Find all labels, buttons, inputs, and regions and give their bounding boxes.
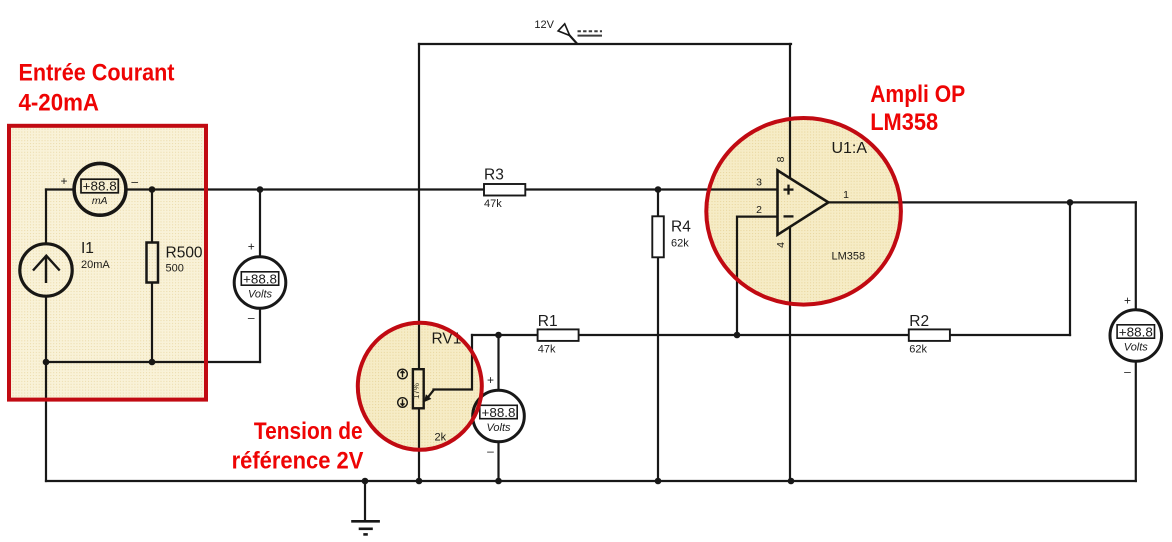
resistor R500 [147, 243, 203, 283]
junction V2 bottom on ground rail [495, 478, 502, 485]
wire voltmeter V1 top [259, 190, 261, 257]
voltmeter V3 (output) [1110, 293, 1162, 378]
RV1 up-adjust symbol [398, 369, 408, 379]
current source I1 [20, 240, 111, 296]
wire pin2 to R1 net [737, 217, 778, 335]
svg-text:Ampli OP: Ampli OP [870, 81, 965, 108]
junction I1 bottom on box rail [43, 359, 50, 366]
svg-text:Volts: Volts [486, 422, 511, 434]
ammeter [60, 163, 138, 215]
junction R4 top on pin3 net [655, 186, 662, 193]
svg-text:R1: R1 [538, 313, 558, 330]
junction ground tap on ground rail [362, 478, 369, 485]
svg-text:–: – [1124, 365, 1131, 379]
wire pin8 vertical [789, 44, 791, 180]
svg-text:4-20mA: 4-20mA [19, 90, 100, 117]
svg-text:+88.8: +88.8 [1119, 325, 1153, 340]
op-amp U1:A triangle [756, 140, 867, 263]
highlight border: op-amp circle [706, 118, 901, 305]
wire pin4 vertical [789, 225, 791, 481]
svg-text:47k: 47k [538, 343, 556, 355]
wire voltmeter V1 bottom [259, 309, 261, 363]
svg-text:+88.8: +88.8 [482, 405, 516, 420]
wire left vertical (12V to pot to ground) [418, 44, 420, 481]
wire R500 vertical [151, 190, 153, 363]
wire voltmeter V2 top [497, 335, 499, 390]
highlight border: RV1 circle [358, 323, 482, 450]
wire R2 right vertical up to output [1069, 202, 1071, 335]
wire main horizontal net (ammeter to pin3) [46, 188, 74, 190]
power terminal 12V triangle [558, 24, 570, 36]
svg-text:Tension de: Tension de [254, 418, 363, 445]
svg-text:62k: 62k [909, 343, 927, 355]
voltmeter V2 (reference) [473, 373, 525, 458]
svg-text:R3: R3 [484, 166, 504, 183]
svg-text:12V: 12V [534, 19, 554, 31]
svg-text:62k: 62k [671, 237, 689, 249]
junction R4 bottom on ground rail [655, 478, 662, 485]
wire RV1 wiper [428, 335, 473, 398]
wire output voltmeter V3 top [1135, 202, 1137, 309]
highlight fill: op-amp circle [706, 118, 901, 305]
highlight fill: input box [9, 126, 206, 400]
svg-text:Volts: Volts [248, 288, 273, 300]
junction V1 tap on input net [257, 186, 264, 193]
potentiometer RV1 body [412, 331, 461, 444]
wire input-box bottom rail [46, 361, 260, 363]
ground [351, 481, 380, 534]
svg-text:R4: R4 [671, 218, 691, 235]
junction RV1 bottom on ground rail [416, 478, 423, 485]
resistor R2 [909, 313, 950, 356]
highlight fill: RV1 circle [358, 323, 482, 450]
wire I1 top [45, 190, 47, 244]
wire output voltmeter V3 bottom [1135, 362, 1137, 482]
junction pin2 tap on R1-R2 net [734, 332, 741, 339]
resistor R4 [652, 216, 691, 257]
svg-text:+: + [487, 373, 494, 387]
svg-text:référence 2V: référence 2V [232, 448, 364, 475]
resistor R3 [484, 166, 525, 209]
svg-text:–: – [248, 311, 255, 325]
svg-text:Entrée Courant: Entrée Courant [19, 60, 175, 87]
RV1 down-adjust symbol [398, 398, 408, 408]
wire voltmeter V2 bottom [497, 442, 499, 481]
junction R2 feedback on output net [1067, 199, 1074, 206]
resistor R1 [538, 313, 579, 356]
svg-text:LM358: LM358 [870, 109, 938, 136]
junction R500 top on input net [149, 186, 156, 193]
wire bottom ground rail [46, 480, 1136, 482]
junction V2 tap on reference net [495, 332, 502, 339]
svg-text:47k: 47k [484, 198, 502, 210]
power net-name dashes [578, 31, 603, 35]
svg-text:R2: R2 [909, 313, 929, 330]
svg-text:+88.8: +88.8 [243, 272, 277, 287]
wire output pin1 [828, 201, 1136, 203]
op-amp minus input marker [784, 215, 794, 217]
wire R4 vertical [657, 190, 659, 482]
op-amp plus input marker [784, 185, 794, 195]
RV1 wiper arrowhead [424, 394, 432, 402]
svg-text:–: – [487, 444, 494, 458]
highlight border: input box [9, 126, 206, 400]
svg-text:+: + [1124, 293, 1131, 307]
junction pin4 on ground rail [788, 478, 795, 485]
wire power tap diagonal [570, 36, 577, 44]
junction R500 bottom on box rail [149, 359, 156, 366]
wire R1-R2 horizontal net [472, 334, 1070, 336]
svg-text:+: + [248, 239, 255, 253]
wire top rail 12V [419, 43, 791, 45]
wire I1 bottom to ground rail [45, 297, 47, 481]
svg-text:Volts: Volts [1124, 341, 1149, 353]
voltmeter V1 (input) [234, 239, 286, 324]
